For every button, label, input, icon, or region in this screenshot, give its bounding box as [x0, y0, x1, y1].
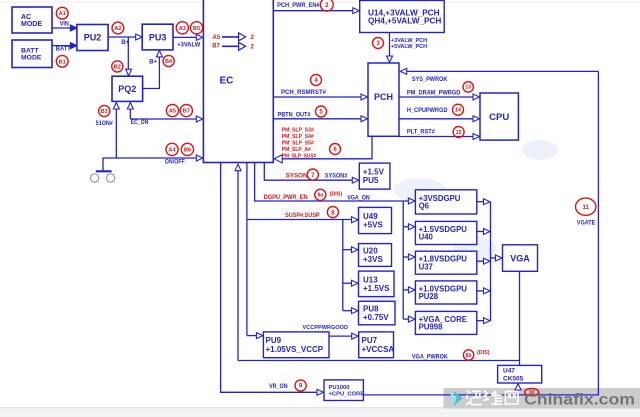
- svg-text:B6: B6: [184, 147, 191, 153]
- svg-text:13: 13: [465, 85, 471, 91]
- svg-text:8a: 8a: [318, 193, 324, 199]
- svg-text:PM_SLP_S5#: PM_SLP_S5#: [282, 140, 315, 146]
- svg-text:A5: A5: [169, 109, 176, 115]
- svg-text:PU2: PU2: [84, 33, 102, 43]
- svg-text:A5: A5: [213, 35, 221, 41]
- svg-text:PU9: PU9: [266, 336, 282, 345]
- svg-text:+3VALW: +3VALW: [177, 41, 201, 48]
- svg-text:+5VALW_PCH: +5VALW_PCH: [391, 44, 427, 50]
- svg-text:PCH_RSMRST#: PCH_RSMRST#: [281, 89, 326, 96]
- svg-text:U37: U37: [419, 262, 433, 271]
- svg-text:+VCCSA: +VCCSA: [362, 345, 395, 354]
- svg-text:MODE: MODE: [21, 21, 42, 28]
- svg-text:PQ2: PQ2: [118, 84, 136, 94]
- svg-text:15: 15: [456, 130, 462, 136]
- svg-text:U40: U40: [419, 233, 434, 242]
- svg-text:PU998: PU998: [419, 323, 444, 332]
- svg-text:B7: B7: [183, 109, 190, 115]
- svg-text:(DIS): (DIS): [330, 191, 343, 197]
- svg-text:EC_ON: EC_ON: [131, 119, 149, 126]
- svg-text:BATT: BATT: [56, 47, 71, 53]
- svg-text:PU7: PU7: [362, 336, 378, 345]
- svg-text:B+: B+: [121, 39, 129, 46]
- svg-text:B7: B7: [212, 44, 220, 50]
- svg-text:ON/OFF: ON/OFF: [165, 159, 185, 166]
- svg-text:VR_ON: VR_ON: [269, 384, 288, 390]
- svg-text:CPU: CPU: [489, 112, 509, 123]
- svg-text:PM_SLP_A#: PM_SLP_A#: [282, 147, 312, 153]
- svg-text:MODE: MODE: [21, 55, 42, 62]
- svg-text:VCCPPWRGOOD: VCCPPWRGOOD: [303, 325, 349, 331]
- svg-text:SUSP#,SUSP: SUSP#,SUSP: [285, 212, 320, 219]
- svg-text:BATT: BATT: [21, 48, 39, 55]
- svg-text:Chinafix.com: Chinafix.com: [524, 392, 635, 409]
- svg-text:PCH_PWR_EN#: PCH_PWR_EN#: [277, 2, 320, 9]
- svg-text:B+: B+: [149, 59, 157, 66]
- svg-text:SYSON: SYSON: [286, 172, 309, 179]
- svg-text:PM_SLP_SUS#: PM_SLP_SUS#: [282, 153, 317, 159]
- svg-text:H_CPUPWRGD: H_CPUPWRGD: [407, 107, 448, 114]
- svg-text:VGA: VGA: [510, 253, 530, 263]
- svg-text:+0.75V: +0.75V: [363, 313, 389, 322]
- svg-text:PM_SLP_S3#: PM_SLP_S3#: [282, 127, 315, 133]
- svg-text:B1: B1: [59, 59, 66, 65]
- svg-text:8b: 8b: [466, 353, 472, 359]
- svg-text:VGATE: VGATE: [577, 219, 596, 226]
- svg-text:B3: B3: [101, 109, 108, 115]
- svg-text:DGPU_PWR_EN: DGPU_PWR_EN: [264, 194, 308, 201]
- svg-text:B2: B2: [114, 64, 121, 70]
- svg-text:+CPU_CORE: +CPU_CORE: [329, 392, 365, 398]
- svg-text:SYSON#: SYSON#: [325, 173, 348, 180]
- svg-text:(DIS): (DIS): [477, 350, 490, 356]
- svg-text:CK505: CK505: [503, 375, 524, 382]
- svg-text:+1.5VS: +1.5VS: [363, 284, 390, 293]
- svg-text:11: 11: [583, 205, 590, 211]
- svg-text:PU5: PU5: [363, 176, 379, 185]
- svg-text:QH4,+5VALW_PCH: QH4,+5VALW_PCH: [368, 17, 441, 26]
- svg-text:B5: B5: [193, 26, 200, 32]
- svg-text:U47: U47: [503, 368, 515, 375]
- svg-text:A3: A3: [179, 26, 186, 32]
- svg-text:A1: A1: [59, 11, 66, 17]
- svg-text:VGA_PWROK: VGA_PWROK: [412, 354, 448, 361]
- svg-text:A4: A4: [168, 147, 176, 153]
- svg-text:SYS_PWROK: SYS_PWROK: [412, 76, 448, 83]
- svg-text:PM_DRAM_PWRGD: PM_DRAM_PWRGD: [407, 89, 461, 96]
- svg-text:+5VS: +5VS: [363, 221, 383, 230]
- svg-text:+3VS: +3VS: [363, 255, 383, 264]
- svg-text:PLT_RST#: PLT_RST#: [407, 129, 435, 136]
- svg-text:51ON#: 51ON#: [96, 120, 113, 127]
- svg-text:PM_SLP_S4#: PM_SLP_S4#: [282, 134, 315, 140]
- svg-text:EC: EC: [220, 76, 234, 87]
- svg-text:VIN: VIN: [60, 21, 69, 27]
- svg-text:B4: B4: [165, 59, 173, 65]
- svg-text:Q6: Q6: [419, 202, 430, 211]
- svg-text:PU1000: PU1000: [329, 385, 350, 391]
- svg-text:AC: AC: [21, 14, 31, 21]
- svg-text:PU28: PU28: [419, 292, 439, 301]
- svg-text:VGA_ON: VGA_ON: [347, 195, 370, 202]
- svg-text:14: 14: [455, 108, 461, 114]
- svg-text:+3VALW_PCH: +3VALW_PCH: [391, 38, 427, 44]
- svg-text:PU3: PU3: [149, 32, 167, 42]
- svg-text:A2: A2: [114, 26, 121, 32]
- svg-text:PBTN_OUT#: PBTN_OUT#: [278, 112, 311, 119]
- svg-text:+1.05VS_VCCP: +1.05VS_VCCP: [266, 345, 324, 354]
- svg-text:PCH: PCH: [374, 92, 393, 102]
